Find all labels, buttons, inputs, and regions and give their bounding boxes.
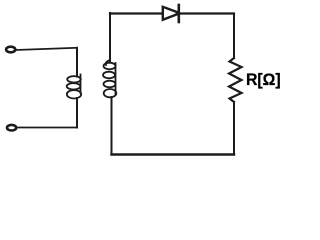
wire right vertical below resistor: [233, 102, 235, 155]
resistor R: [229, 58, 242, 102]
wire primary top vertical: [76, 48, 78, 77]
wire secondary left vertical (bottom): [111, 97, 113, 155]
inductor L1 (transformer primary): [67, 75, 82, 99]
wire bottom terminal to primary: [17, 127, 77, 129]
wire top of loop, left of diode: [110, 12, 162, 14]
label R[Ω]: [246, 70, 281, 90]
terminal T1 (top input): [6, 47, 15, 53]
inductor L2 (transformer secondary): [103, 60, 116, 97]
wire right vertical above resistor: [233, 14, 235, 59]
terminal T2 (bottom input): [7, 125, 16, 131]
wire primary bottom vertical: [76, 98, 78, 128]
wire top of loop, right of diode: [180, 12, 234, 14]
wire bottom of loop: [112, 153, 235, 155]
diode D1: [163, 5, 179, 22]
wire secondary left vertical (top): [109, 13, 111, 61]
wire top terminal to primary: [16, 48, 77, 50]
